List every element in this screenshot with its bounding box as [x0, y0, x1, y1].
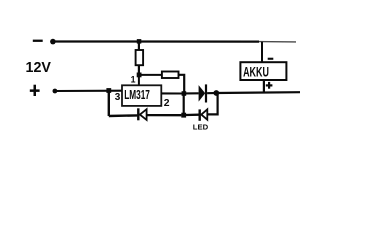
diode D2 [140, 109, 147, 120]
svg-text:LM317: LM317 [124, 87, 150, 102]
12V positive terminal dot [53, 89, 58, 94]
svg-text:3: 3 [115, 92, 121, 103]
svg-text:1: 1 [131, 75, 136, 85]
wire R2 to output node [179, 75, 185, 92]
node pin1 junction [137, 73, 142, 78]
resistor R2 [162, 72, 179, 79]
battery B1 AKKU box [240, 62, 286, 80]
junction battery output node [213, 90, 219, 96]
wire D2 to node B [147, 114, 182, 116]
wire top negative rail [53, 40, 259, 42]
wire node A to D1 [186, 92, 199, 94]
wire node to R2 [141, 74, 162, 76]
12V positive terminal plus sign [30, 85, 40, 96]
LED diode [201, 109, 207, 119]
svg-text:12V: 12V [26, 60, 52, 76]
wire AKKU to positive rail [263, 80, 265, 92]
wire D1 to battery node [207, 92, 214, 94]
svg-text:LED: LED [193, 123, 208, 132]
regulator U1 LM317 box [122, 85, 161, 106]
wire positive input to U1 pin 3 [55, 90, 123, 92]
wire rail to R1 top [138, 42, 140, 52]
junction top rail / R1 [137, 39, 142, 44]
wire node to U1 pin 1 [138, 77, 140, 86]
wire bottom return left segment [109, 114, 138, 117]
diode D1 cathode bar [205, 84, 207, 102]
junction output node A [182, 91, 187, 96]
wire LED to output rail [207, 94, 217, 114]
wire input node down [108, 91, 110, 117]
svg-text:2: 2 [164, 98, 170, 109]
wire U1 pin 2 to output node [161, 92, 182, 94]
diode D2 cathode bar [137, 108, 139, 120]
wire positive output rail [216, 91, 300, 94]
wire R1 bottom to adj node [138, 65, 140, 74]
svg-text:AKKU: AKKU [243, 65, 269, 80]
12V negative terminal minus sign [33, 40, 43, 42]
12V negative terminal dot [50, 39, 56, 45]
wire node B to LED [186, 114, 199, 117]
resistor R1 [136, 50, 144, 65]
diode D1 [199, 85, 206, 102]
LED cathode bar [199, 109, 201, 120]
wire top rail thin extension [259, 41, 296, 43]
junction node B [181, 113, 186, 118]
junction input node [106, 88, 111, 93]
wire node B up to output node [183, 94, 185, 116]
battery plus label [266, 82, 273, 89]
battery minus label [268, 58, 274, 60]
wire AKKU to negative rail [261, 42, 263, 63]
